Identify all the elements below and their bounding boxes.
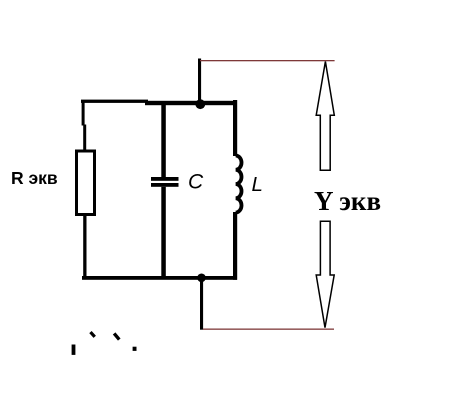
capacitor C lower lead [161,187,166,277]
artifact mark: small square dot [133,347,137,351]
artifact mark: small diagonal tick 2 [113,332,121,340]
wire: bottom horizontal bus [82,276,237,280]
wire: top horizontal bus left segment [81,100,148,103]
svg-text:C: C [188,171,204,194]
resistor R экв [77,151,95,215]
wire: bottom red terminal line [203,329,334,330]
node: top terminal junction dot [195,99,205,109]
node: bottom terminal junction dot [197,274,206,283]
wire: left branch vertical upper (top bus to resistor) [82,100,85,126]
wire: thin lead from bottom node down to red terminal line [200,278,203,330]
wire: top horizontal bus right segment [145,101,237,105]
inductor L upper lead [233,100,237,156]
inductor L lower lead [233,212,237,280]
wire: thin lead from top node up to red terminal line [198,59,201,105]
svg-text:R экв: R экв [11,168,58,188]
inductor L coil (4 right-bulging arcs) [236,156,242,213]
wire: left branch vertical lower (resistor to bottom bus) [83,214,86,278]
artifact mark: short vertical bar [72,345,76,355]
capacitor C bottom plate [151,183,179,187]
arrow up (hollow) [316,62,334,171]
wire: top red terminal line [200,60,335,61]
capacitor C top plate [151,177,179,181]
capacitor C upper lead [161,104,166,177]
artifact mark: small diagonal tick 1 [89,331,96,338]
svg-text:Y экв: Y экв [314,186,381,216]
arrow down (hollow) [316,221,334,327]
svg-text:L: L [252,173,263,196]
